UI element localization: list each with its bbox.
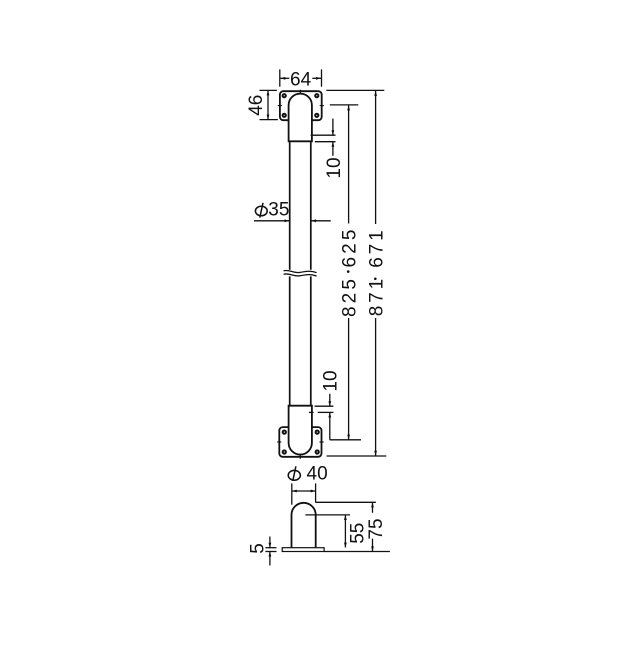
svg-text:10: 10 — [324, 157, 345, 178]
svg-text:35: 35 — [268, 199, 289, 220]
svg-text:64: 64 — [290, 69, 312, 90]
svg-text:5: 5 — [247, 543, 268, 554]
svg-text:46: 46 — [246, 95, 267, 116]
svg-text:40: 40 — [307, 464, 328, 485]
svg-text:10: 10 — [321, 370, 342, 391]
svg-text:75: 75 — [366, 518, 387, 539]
